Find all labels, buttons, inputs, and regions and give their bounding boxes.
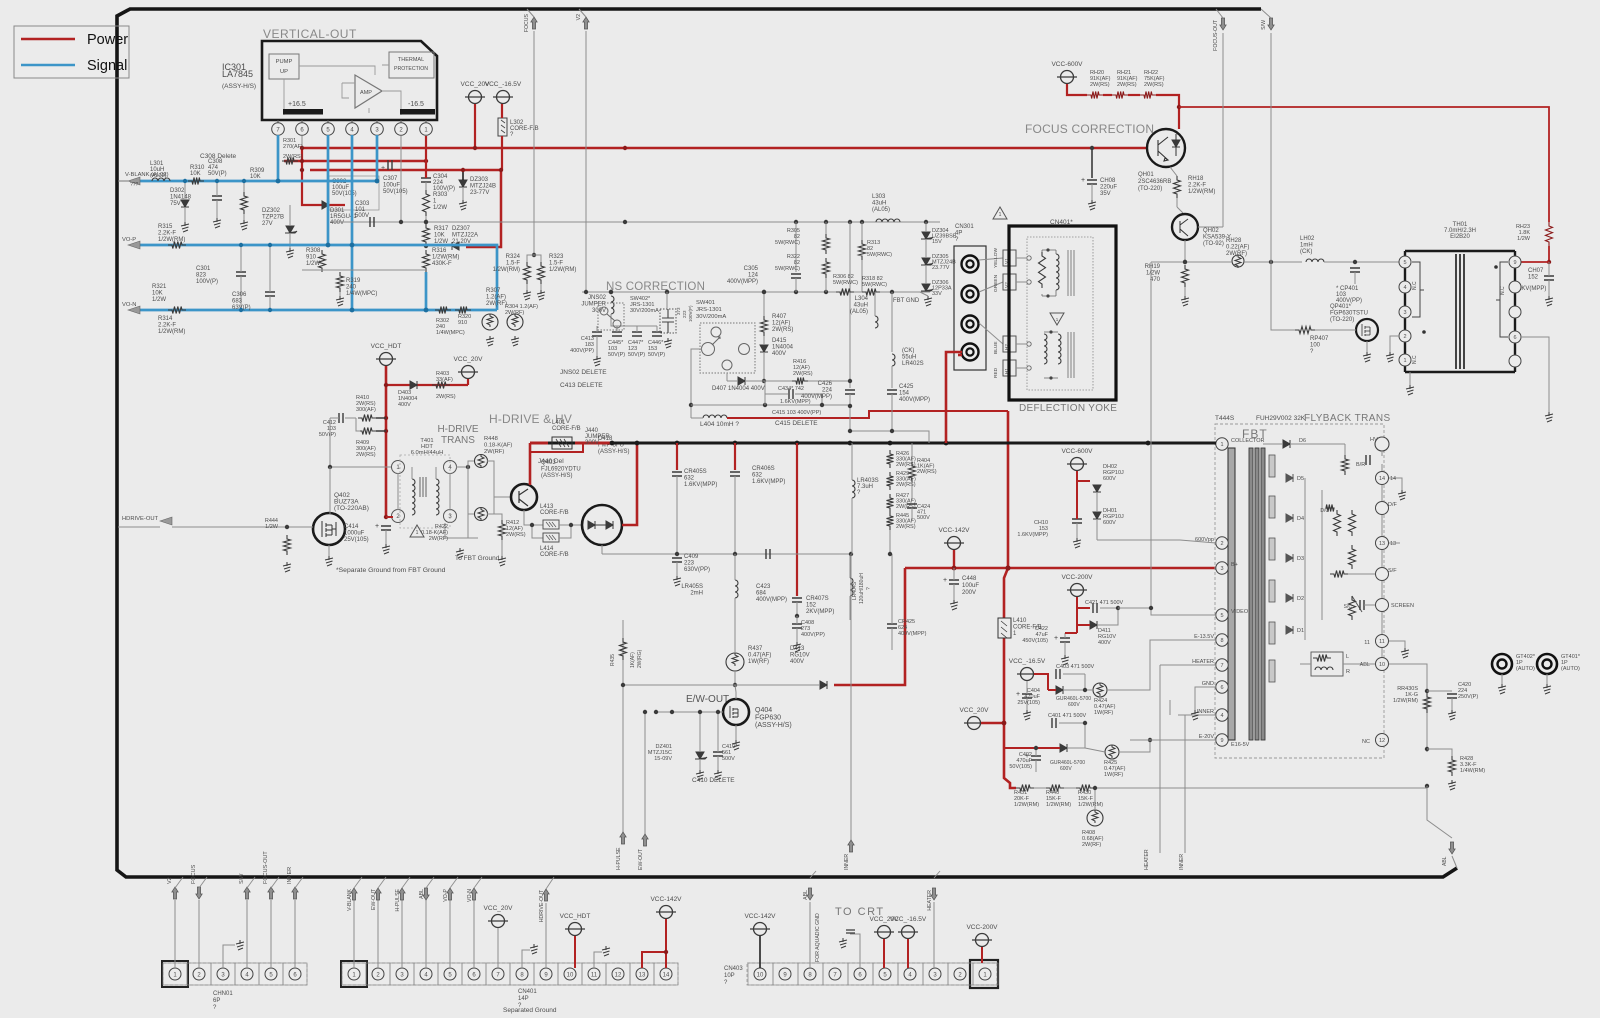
svg-text:VCC-200V: VCC-200V <box>1061 574 1093 581</box>
svg-text:43uH: 43uH <box>854 303 868 309</box>
svg-text:1/2W(RM): 1/2W(RM) <box>1014 802 1039 808</box>
wire blue pin4 drop <box>351 135 354 310</box>
svg-text:+: + <box>375 523 379 530</box>
CN401 pin8 ground <box>522 950 530 968</box>
svg-text:GREEN: GREEN <box>993 274 999 292</box>
svg-text:1/4W(MPC): 1/4W(MPC) <box>346 291 377 297</box>
svg-text:SW401: SW401 <box>696 300 715 306</box>
svg-text:223: 223 <box>682 310 687 318</box>
yoke H winding <box>1044 334 1047 364</box>
svg-text:D2: D2 <box>1297 596 1304 602</box>
svg-text:+16.5: +16.5 <box>288 101 306 108</box>
wire E-20V net <box>1119 740 1150 752</box>
R316 430K-F <box>423 250 430 272</box>
svg-text:VCC-600V: VCC-600V <box>1061 448 1093 455</box>
D301 diode <box>322 201 329 209</box>
wire red bus VCC long to focus correction <box>302 147 1147 150</box>
To FBT Ground <box>456 548 464 558</box>
svg-text:300V: 300V <box>585 440 599 446</box>
R310 10K <box>188 178 204 185</box>
svg-text:2.2K-F: 2.2K-F <box>158 323 176 329</box>
svg-text:FJL6920YDTU: FJL6920YDTU <box>541 467 581 473</box>
svg-text:240: 240 <box>346 285 357 291</box>
svg-text:D302: D302 <box>170 188 185 194</box>
svg-text:10K: 10K <box>434 233 445 239</box>
svg-text:1W(RF): 1W(RF) <box>1104 772 1123 778</box>
svg-text:(AL05): (AL05) <box>872 207 890 213</box>
C308 474 <box>212 196 222 200</box>
C420 cap <box>1427 690 1452 692</box>
wire E-13.5 net <box>1107 640 1216 690</box>
svg-text:VCC-142V: VCC-142V <box>744 913 776 920</box>
C423 cap <box>766 549 770 559</box>
svg-text:HDRIVE-OUT: HDRIVE-OUT <box>122 516 159 522</box>
QP401 grounds <box>1366 341 1368 352</box>
wire EW-OUT column <box>644 712 646 834</box>
svg-text:CH08: CH08 <box>1100 178 1116 184</box>
C410 cap <box>713 752 723 756</box>
svg-text:(ASSY-H/S): (ASSY-H/S) <box>755 722 792 729</box>
svg-text:E-20V: E-20V <box>1199 734 1215 740</box>
svg-text:1N4148: 1N4148 <box>170 195 192 201</box>
wire red bus overlay left <box>530 442 548 445</box>
svg-text:VCC_HDT: VCC_HDT <box>371 343 402 350</box>
LR404S coil <box>849 554 851 578</box>
V1 V2 boxes <box>1003 250 1016 266</box>
R412 resistor <box>499 520 506 540</box>
svg-text:1000uF: 1000uF <box>344 531 365 537</box>
R309 10K <box>241 192 248 214</box>
svg-text:223: 223 <box>684 561 695 567</box>
svg-text:2W(RF): 2W(RF) <box>1082 842 1101 848</box>
wire gnd pin6 <box>1195 687 1216 710</box>
C446 153 cap <box>652 332 662 336</box>
svg-text:100V(P): 100V(P) <box>196 279 218 285</box>
C403 cap <box>1056 669 1060 679</box>
wire red vcc600 <box>1076 471 1078 490</box>
svg-text:400V: 400V <box>398 402 411 408</box>
svg-text:400V: 400V <box>772 351 786 357</box>
svg-text:FOR AQUADIC GND: FOR AQUADIC GND <box>815 913 821 962</box>
wire fbt col1 <box>1304 478 1306 640</box>
svg-text:FGP630: FGP630 <box>755 715 781 722</box>
R410 resistor <box>358 415 376 422</box>
wire red Q403 collector to bus <box>529 443 532 485</box>
LH02 coil <box>1306 259 1324 262</box>
C413 deleted dotted cap <box>660 309 676 333</box>
svg-text:1.2(AF): 1.2(AF) <box>486 295 506 301</box>
svg-text:0.47(AF): 0.47(AF) <box>748 653 771 659</box>
C447 123 cap <box>632 332 642 336</box>
yoke H wires <box>1016 343 1026 345</box>
R428 resistor <box>1427 749 1452 756</box>
C305 cap column <box>795 222 797 272</box>
svg-text:23.77V: 23.77V <box>932 265 950 271</box>
power symbol VCC-200V <box>1071 584 1084 597</box>
svg-text:1W(RF): 1W(RF) <box>748 659 769 665</box>
deflection yoke box <box>1009 226 1116 400</box>
T401 pin3 wire <box>445 523 478 538</box>
svg-text:1/2W(RM): 1/2W(RM) <box>1078 802 1103 808</box>
svg-text:7: 7 <box>1220 663 1223 669</box>
svg-text:(AL02): (AL02) <box>150 173 167 179</box>
svg-text:CN403: CN403 <box>724 966 743 972</box>
svg-text:R407: R407 <box>772 314 787 320</box>
power symbol VCC_-16.5V <box>1021 668 1034 681</box>
svg-text:14: 14 <box>1390 476 1396 482</box>
svg-text:VCC_20V: VCC_20V <box>454 356 484 363</box>
CN401 connector outline <box>342 963 678 985</box>
svg-text:12(AF): 12(AF) <box>772 321 790 327</box>
svg-text:1: 1 <box>416 530 419 536</box>
svg-text:50V(P): 50V(P) <box>319 432 336 438</box>
svg-text:10: 10 <box>567 973 574 979</box>
svg-text:R437: R437 <box>748 646 763 652</box>
svg-text:R307: R307 <box>486 288 501 294</box>
svg-text:0.18-K(AF): 0.18-K(AF) <box>484 443 512 449</box>
wire red bus 2 <box>284 160 426 163</box>
TH01 left winding <box>1412 262 1424 317</box>
svg-text:C403 471 500V: C403 471 500V <box>1056 664 1095 670</box>
wire pin6 stub <box>301 136 303 148</box>
R435 resistor <box>620 638 627 660</box>
wire red pin6 drop <box>302 148 345 205</box>
thermal protection box <box>389 52 434 78</box>
svg-text:1/2W(RM): 1/2W(RM) <box>1188 189 1215 195</box>
svg-text:VCC_20V: VCC_20V <box>960 707 990 714</box>
wire to Q403 base <box>494 496 511 498</box>
svg-text:430K-F: 430K-F <box>432 261 452 267</box>
svg-text:2W(RS): 2W(RS) <box>772 327 793 333</box>
svg-text:ABL: ABL <box>1442 856 1448 866</box>
DZ307 diode MTZJ22A <box>452 242 459 250</box>
svg-text:CN401*: CN401* <box>1050 219 1073 226</box>
svg-text:152: 152 <box>1528 275 1539 281</box>
Q402 drain wire <box>329 467 331 514</box>
svg-text:+: + <box>1081 177 1085 184</box>
svg-text:RED: RED <box>993 367 999 378</box>
svg-text:23-77V: 23-77V <box>470 190 489 196</box>
svg-text:V2: V2 <box>167 877 173 884</box>
svg-text:120uH/180uH: 120uH/180uH <box>859 573 865 604</box>
wire blue R316 drop <box>425 272 428 310</box>
C304 224 100V(P) <box>421 178 431 182</box>
svg-text:MTZJ24B: MTZJ24B <box>470 184 496 190</box>
power symbol VCC-600V <box>1071 458 1084 471</box>
power symbol VCC_20V <box>878 926 891 939</box>
svg-text:VO-P: VO-P <box>443 888 449 901</box>
Q403 emitter to L413/L414 <box>524 510 543 525</box>
svg-text:FOCUS: FOCUS <box>191 864 197 884</box>
svg-text:CR407S: CR407S <box>806 596 829 602</box>
R426 resistor chain <box>887 450 894 468</box>
svg-text:CORE-F/B: CORE-F/B <box>552 426 581 432</box>
DZ304 stack <box>921 232 933 239</box>
svg-text:1.6KV(MPP): 1.6KV(MPP) <box>684 482 717 488</box>
svg-text:Q404: Q404 <box>755 707 772 714</box>
svg-text:CHN01: CHN01 <box>213 991 233 997</box>
svg-text:UP: UP <box>280 69 288 75</box>
svg-text:10: 10 <box>1379 662 1385 668</box>
R416 12AF <box>758 380 792 382</box>
wire SW401 left column <box>691 349 702 418</box>
svg-text:10P: 10P <box>724 973 735 979</box>
power symbol VCC-142V <box>754 923 767 936</box>
D1 diode <box>1286 626 1293 634</box>
FBT HV pin <box>1375 437 1389 451</box>
svg-text:9: 9 <box>1220 738 1223 744</box>
LR405S coil <box>735 580 738 598</box>
svg-text:To FBT Ground: To FBT Ground <box>455 555 500 562</box>
svg-text:400V: 400V <box>330 220 344 226</box>
svg-text:ABL: ABL <box>1360 662 1370 668</box>
svg-text:2KV(MPP): 2KV(MPP) <box>806 609 834 615</box>
svg-text:VCC-142V: VCC-142V <box>650 896 682 903</box>
wire EW out to Q404 <box>656 711 723 713</box>
CR406S cap from bus <box>734 443 736 470</box>
wire video net <box>1118 607 1151 609</box>
svg-text:33(AF): 33(AF) <box>436 377 453 383</box>
svg-text:L: L <box>1346 654 1349 660</box>
wire red D418 to bus <box>622 443 637 525</box>
svg-text:1/2W: 1/2W <box>1517 236 1531 242</box>
svg-text:HV: HV <box>1370 437 1378 443</box>
svg-text:CORE-F/B: CORE-F/B <box>540 510 569 516</box>
svg-text:400V(MPP): 400V(MPP) <box>801 394 832 400</box>
svg-text:632: 632 <box>684 476 695 482</box>
LR402S coil <box>892 354 895 366</box>
svg-text:200V: 200V <box>962 590 976 596</box>
svg-text:AMP: AMP <box>360 90 372 96</box>
svg-text:L304: L304 <box>855 296 869 302</box>
svg-text:1: 1 <box>999 212 1002 218</box>
C445 103 cap <box>612 332 622 336</box>
svg-text:5W(RWC): 5W(RWC) <box>862 282 887 288</box>
power symbol VCC-142V <box>660 906 673 919</box>
svg-text:D/F: D/F <box>1388 502 1398 508</box>
svg-text:R321: R321 <box>152 284 167 290</box>
R448 circle resistor <box>475 455 488 468</box>
wire inner net <box>1169 700 1171 715</box>
svg-text:PUMP: PUMP <box>276 59 293 65</box>
wire deflection columns <box>849 222 851 388</box>
C434 742 loop <box>765 381 788 394</box>
svg-text:VCC_-16.5V: VCC_-16.5V <box>1009 658 1046 665</box>
wire red vcc20 to diode <box>981 722 1004 724</box>
svg-text:1.5-F: 1.5-F <box>549 261 563 267</box>
svg-text:15V: 15V <box>932 239 942 245</box>
Q404 FGP630 <box>723 699 749 725</box>
R424 thermistor <box>1093 683 1107 697</box>
FBT dashed box <box>1215 424 1384 758</box>
svg-text:2W(RS): 2W(RS) <box>1090 82 1110 88</box>
svg-text:INNER: INNER <box>1179 854 1185 870</box>
svg-text:43uH: 43uH <box>872 201 886 207</box>
svg-text:3: 3 <box>1220 566 1223 572</box>
svg-text:5: 5 <box>1403 260 1406 266</box>
svg-text:CORE-F/B: CORE-F/B <box>540 552 569 558</box>
D411 diode <box>1090 621 1097 629</box>
svg-text:QP401*: QP401* <box>1330 304 1352 310</box>
svg-text:C306: C306 <box>232 292 247 298</box>
svg-text:2mH: 2mH <box>690 591 703 597</box>
R301 270 resistor <box>282 158 298 165</box>
svg-text:2W(RS): 2W(RS) <box>1117 82 1137 88</box>
R313 column <box>859 240 866 260</box>
svg-text:CR406S: CR406S <box>752 466 775 472</box>
svg-text:D5: D5 <box>1297 476 1304 482</box>
R437 thermistor <box>726 653 744 671</box>
svg-text:2W(RS): 2W(RS) <box>896 482 916 488</box>
svg-text:TZP27B: TZP27B <box>262 215 284 221</box>
DH01 diode <box>1093 512 1101 519</box>
svg-text:0.22(AF): 0.22(AF) <box>1226 245 1249 251</box>
svg-text:C301: C301 <box>196 266 211 272</box>
svg-text:FGP630TSTU: FGP630TSTU <box>1330 311 1368 317</box>
wire red B+ vertical <box>1007 411 1010 568</box>
svg-text:600V: 600V <box>1068 702 1080 708</box>
S/C cap <box>1360 600 1364 610</box>
IC301 LA7845 outline <box>262 41 437 120</box>
CH10 cap <box>1072 519 1082 523</box>
svg-text:5W(RWC): 5W(RWC) <box>775 266 800 272</box>
svg-text:C410 DELETE: C410 DELETE <box>692 777 735 784</box>
C425 154 cap <box>887 390 897 394</box>
svg-text:LR404S: LR404S <box>852 581 858 600</box>
svg-text:400V: 400V <box>1098 640 1111 646</box>
R323 1.5-F <box>534 255 541 262</box>
svg-text:C307: C307 <box>383 176 398 182</box>
L304 coil <box>875 316 878 328</box>
svg-text:2: 2 <box>1403 334 1406 340</box>
svg-text:400V(MPP): 400V(MPP) <box>898 631 927 637</box>
TH01 transformer box <box>1405 251 1515 372</box>
wire red HDT branch to VCC_20V <box>386 384 468 386</box>
R305 R322 column <box>825 222 827 234</box>
svg-text:373: 373 <box>676 307 681 315</box>
svg-text:(TO-220AB): (TO-220AB) <box>334 505 369 512</box>
svg-text:124: 124 <box>748 273 759 279</box>
svg-text:VCC-600V: VCC-600V <box>1051 61 1083 68</box>
op-amp AMP triangle <box>355 75 382 108</box>
L414 CORE-F/B <box>543 533 559 542</box>
svg-text:300(AF): 300(AF) <box>356 407 376 413</box>
svg-text:400V(MPP): 400V(MPP) <box>727 279 758 285</box>
svg-text:6P: 6P <box>213 998 220 1004</box>
svg-text:2W(RS): 2W(RS) <box>283 154 303 160</box>
svg-text:T444S: T444S <box>1215 415 1235 422</box>
svg-text:1N4004: 1N4004 <box>772 345 794 351</box>
svg-text:JUMPER: JUMPER <box>581 302 606 308</box>
svg-text:13: 13 <box>639 973 646 979</box>
RH19 resistor <box>1182 265 1189 287</box>
svg-text:8: 8 <box>1220 638 1223 644</box>
H-PULSE arrow inside <box>620 832 626 844</box>
svg-text:VCC_-16.5V: VCC_-16.5V <box>485 81 522 88</box>
RH23 resistor <box>1546 222 1553 246</box>
H2 H1 boxes <box>1003 336 1016 352</box>
wire heater vertical <box>1160 664 1216 666</box>
Q402 BUZ73A mosfet <box>313 513 345 545</box>
pin11 ground <box>1389 641 1405 648</box>
R444 resistor <box>285 525 289 529</box>
D3 diode <box>1286 554 1293 562</box>
C448 cap <box>949 580 959 584</box>
svg-text:1/2W(RM): 1/2W(RM) <box>158 329 185 335</box>
svg-text:RH19: RH19 <box>1145 264 1161 270</box>
GT402 connector <box>1492 654 1512 674</box>
svg-text:C308 Delete: C308 Delete <box>200 153 237 160</box>
svg-text:(AUTO): (AUTO) <box>1561 666 1580 672</box>
svg-text:10K: 10K <box>152 291 163 297</box>
L413 CORE-F/B <box>543 520 559 529</box>
svg-text:R319: R319 <box>346 278 361 284</box>
DZ303 MTZJ24B <box>459 180 467 187</box>
wire red vcc142 <box>953 550 955 568</box>
C306 683 <box>265 292 275 296</box>
svg-text:+: + <box>1054 635 1058 642</box>
svg-text:2W(RG): 2W(RG) <box>637 649 643 668</box>
J440 jumper red loop <box>530 443 583 452</box>
svg-text:VO-N: VO-N <box>467 889 473 902</box>
svg-text:6: 6 <box>1513 335 1516 341</box>
C303 101 500V cap <box>370 217 374 227</box>
svg-text:1/2W(RM): 1/2W(RM) <box>158 237 185 243</box>
svg-text:2: 2 <box>1220 541 1223 547</box>
Q403 transistor FJL6920 <box>511 484 537 510</box>
svg-text:C305: C305 <box>744 266 759 272</box>
svg-text:C426: C426 <box>818 381 833 387</box>
QP401 mosfet <box>1356 319 1378 341</box>
R303 1 1/2W <box>423 190 430 216</box>
svg-text:3: 3 <box>1403 310 1406 316</box>
svg-text:10K: 10K <box>190 171 201 177</box>
wire blue pin7 drop <box>277 135 280 181</box>
svg-text:10: 10 <box>757 973 764 979</box>
LR403S coil <box>852 480 855 498</box>
R409 resistor <box>358 428 376 435</box>
svg-text:LR405S: LR405S <box>681 584 703 590</box>
wire CP401 node to QP401 <box>1354 240 1356 262</box>
legend box <box>14 26 129 78</box>
svg-text:RG10V: RG10V <box>790 653 810 659</box>
svg-text:11: 11 <box>591 973 598 979</box>
wire QH02 to TH01 pin5 <box>1151 261 1232 263</box>
wire blue VO-N line <box>140 309 497 312</box>
wire EW diode line <box>623 684 745 686</box>
internal wiring of IC301 <box>284 65 401 115</box>
TH01 pin2 pin6 wires <box>1390 336 1399 352</box>
R407 12AF <box>763 292 765 316</box>
svg-text:600V: 600V <box>1103 520 1116 526</box>
svg-text:(AL05): (AL05) <box>850 309 868 315</box>
svg-text:CR405S: CR405S <box>684 469 707 475</box>
svg-text:(ASSY-H/S): (ASSY-H/S) <box>222 83 256 90</box>
wire QH02 emitter <box>1184 240 1186 262</box>
svg-text:1/2W(RM): 1/2W(RM) <box>432 255 459 261</box>
QH01 transistor <box>1147 129 1185 167</box>
svg-text:E16-5V: E16-5V <box>1231 742 1250 748</box>
svg-text:2W(RF): 2W(RF) <box>429 536 448 542</box>
RH22 resistor <box>1140 92 1156 99</box>
CN301 connector <box>954 246 986 370</box>
svg-text:SCREEN: SCREEN <box>1391 603 1414 609</box>
svg-text:400V(MPP): 400V(MPP) <box>756 597 787 603</box>
L401 CORE-F/B on bus <box>552 437 572 449</box>
FBT diode ladder <box>1269 455 1275 477</box>
wire red VCC_HDT vertical <box>385 366 388 517</box>
R317 10K <box>423 224 430 246</box>
